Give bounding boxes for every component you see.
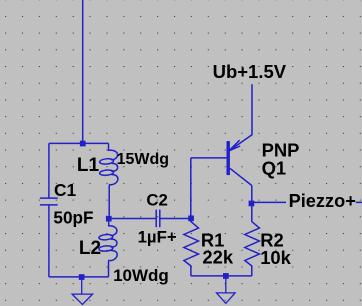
wire top horizontal — [49, 142, 109, 144]
transistor Q1 base bar — [227, 141, 230, 175]
svg-text:L1: L1 — [77, 155, 100, 176]
wire base node vertical — [190, 158, 192, 222]
svg-text:1µF+: 1µF+ — [138, 227, 177, 246]
wire top vertical — [82, 0, 84, 143]
node junction Piezzo — [249, 201, 255, 207]
svg-text:10k: 10k — [260, 247, 291, 268]
svg-text:Piezzo+: Piezzo+ — [289, 191, 356, 211]
svg-text:15Wdg: 15Wdg — [117, 151, 169, 168]
wire emitter supply — [251, 84, 253, 135]
resistor R2 — [245, 222, 260, 276]
wire bottom right — [191, 275, 252, 277]
wire collector vertical — [251, 186, 253, 222]
capacitor C1 — [40, 198, 58, 205]
node junction bottom left — [79, 274, 85, 280]
inductor L1 — [109, 143, 118, 160]
wire bottom left — [49, 276, 109, 278]
wire L junction to C2 — [109, 218, 156, 220]
inductor L2 — [109, 222, 117, 236]
capacitor C2 — [156, 210, 160, 228]
wire C1 top lead — [48, 143, 50, 197]
svg-text:50pF: 50pF — [53, 207, 93, 227]
wire base horizontal — [191, 157, 227, 159]
wire C2 to R1 node — [160, 218, 191, 220]
svg-text:Ub+1.5V: Ub+1.5V — [213, 61, 287, 82]
transistor Q1 collector lead — [230, 168, 252, 185]
node junction C2-R1 — [188, 216, 194, 222]
svg-text:C2: C2 — [146, 191, 167, 210]
transistor Q1 emitter with PNP arrow — [229, 135, 252, 151]
node junction bottom right — [223, 273, 229, 279]
wire C1 bottom lead — [48, 205, 50, 277]
ground right — [217, 276, 236, 304]
resistor R1 — [184, 222, 199, 276]
wire Piezzo left — [252, 201, 286, 203]
svg-text:22k: 22k — [202, 246, 233, 267]
svg-text:10Wdg: 10Wdg — [113, 266, 169, 285]
node junction top — [80, 141, 86, 147]
svg-text:L2: L2 — [79, 238, 101, 259]
svg-text:Q1: Q1 — [262, 158, 287, 179]
ground left — [72, 277, 93, 304]
node junction L1-L2 — [106, 216, 112, 222]
wire Piezzo right edge — [356, 201, 362, 203]
svg-text:C1: C1 — [54, 180, 77, 200]
